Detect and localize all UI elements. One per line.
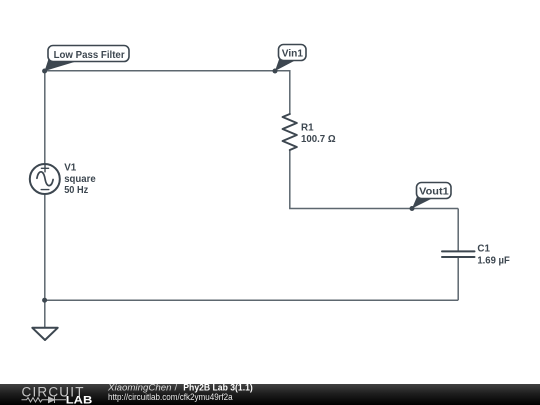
svg-text:R1: R1 (301, 123, 314, 134)
node dot A (42, 69, 47, 74)
svg-text:100.7 Ω: 100.7 Ω (301, 134, 336, 145)
label Vout1 (412, 183, 451, 209)
wire V1 top (44, 71, 46, 165)
R1 value labels: R1 / 100.7 Ohm (301, 123, 336, 145)
CircuitLab logo (0, 384, 120, 405)
logo resistor zigzag (22, 398, 49, 402)
capacitor C1 (442, 251, 475, 257)
label Low Pass Filter (45, 46, 129, 72)
wire C1 bottom (457, 258, 459, 301)
node dot Vin1 (273, 69, 278, 74)
svg-text:50 Hz: 50 Hz (64, 185, 88, 196)
wire Vout down to C1 (457, 209, 459, 251)
resistor R1 (283, 114, 297, 150)
svg-text:Low Pass Filter: Low Pass Filter (54, 50, 125, 61)
node dot Vout1 (410, 206, 415, 211)
svg-text:http://circuitlab.com/cfk2ymu4: http://circuitlab.com/cfk2ymu49rf2a (108, 392, 233, 403)
wire R1 to Vout (290, 150, 458, 209)
label Vin1 (275, 45, 306, 72)
C1 value labels: C1 / 1.69 uF (477, 244, 509, 267)
voltage source V1 (circle, sine wave, plus and minus marks) (30, 164, 60, 194)
logo diode (49, 397, 67, 403)
svg-text:V1: V1 (64, 163, 77, 174)
wire V1 bottom (44, 194, 46, 301)
V1 value labels: V1 / square / 50 Hz (64, 163, 96, 196)
footer bar (0, 384, 540, 405)
svg-text:square: square (64, 174, 96, 185)
svg-text:1.69 µF: 1.69 µF (477, 256, 509, 267)
ground (32, 328, 57, 340)
wire bottom horizontal (45, 299, 458, 301)
svg-text:C1: C1 (477, 244, 490, 255)
svg-text:Vin1: Vin1 (282, 49, 304, 60)
svg-text:Vout1: Vout1 (419, 187, 449, 198)
wire top horizontal (45, 71, 290, 115)
wire ground stem (44, 300, 46, 328)
node dot bottom junction (42, 298, 47, 303)
